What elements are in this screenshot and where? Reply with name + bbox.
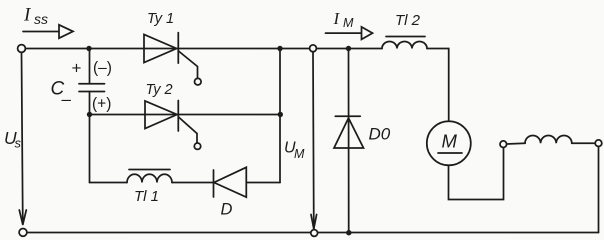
motor M [427, 121, 471, 165]
wire left vertical with U_s arrow [19, 52, 26, 224]
terminal field winding right [595, 140, 602, 147]
terminal bottom-left [19, 229, 27, 237]
wire D to right vertical [246, 182, 280, 184]
node D0 top [346, 46, 351, 51]
thyristor Ty1 [144, 11, 201, 85]
inductor field winding [525, 136, 572, 144]
svg-text:(+): (+) [92, 96, 111, 113]
svg-text:D: D [221, 201, 233, 219]
svg-text:s: s [15, 136, 22, 151]
svg-text:+: + [72, 59, 82, 78]
svg-text:Tl 2: Tl 2 [395, 12, 421, 29]
svg-text:I: I [333, 9, 341, 28]
wire U_M measurement line with arrow [311, 52, 317, 229]
inductor Tl1 [90, 170, 173, 206]
wire to field winding [507, 142, 525, 145]
capacitor C [79, 49, 105, 183]
current arrow I_M [326, 27, 373, 40]
svg-text:(–): (–) [93, 60, 112, 77]
wire Ty2 row [90, 114, 281, 116]
terminal motor lead [500, 141, 507, 148]
svg-text:I: I [23, 5, 32, 26]
thyristor Ty2 [145, 82, 201, 149]
wire right vertical [598, 147, 600, 233]
diode D [214, 167, 247, 218]
svg-text:Ty 1: Ty 1 [147, 11, 174, 27]
wire Tl2 to corner [427, 49, 449, 122]
current label I_ss [23, 5, 48, 28]
node top bus / left block right [277, 46, 282, 51]
svg-text:–: – [62, 90, 72, 109]
terminal bottom-middle [311, 230, 318, 237]
voltage label U_M [284, 140, 305, 162]
diode D0 [334, 49, 391, 233]
svg-text:M: M [294, 147, 305, 161]
svg-text:D0: D0 [369, 125, 391, 144]
wire field winding to terminal [572, 142, 595, 144]
svg-text:Tl 1: Tl 1 [134, 188, 159, 205]
svg-text:M: M [442, 131, 458, 152]
wire bottom bus [27, 232, 599, 234]
svg-text:Ty 2: Ty 2 [146, 82, 173, 98]
current arrow I_ss [23, 25, 73, 38]
svg-text:M: M [343, 16, 354, 30]
wire motor bottom lead [449, 148, 504, 200]
terminal top-left [18, 45, 26, 53]
wire left block right vertical [279, 49, 281, 183]
node D0 bottom [346, 230, 351, 235]
inductor Tl2 [382, 12, 427, 49]
wire Tl1 to D [172, 182, 214, 184]
node Ty2 left [87, 112, 92, 117]
terminal top-middle [310, 45, 317, 52]
current label I_M [333, 9, 355, 30]
node C top [86, 46, 91, 51]
svg-text:ss: ss [34, 11, 48, 27]
wire top bus right [316, 48, 382, 50]
node Ty2 right [278, 112, 283, 117]
voltage label U_s [4, 128, 22, 151]
wire top bus left [26, 48, 310, 50]
